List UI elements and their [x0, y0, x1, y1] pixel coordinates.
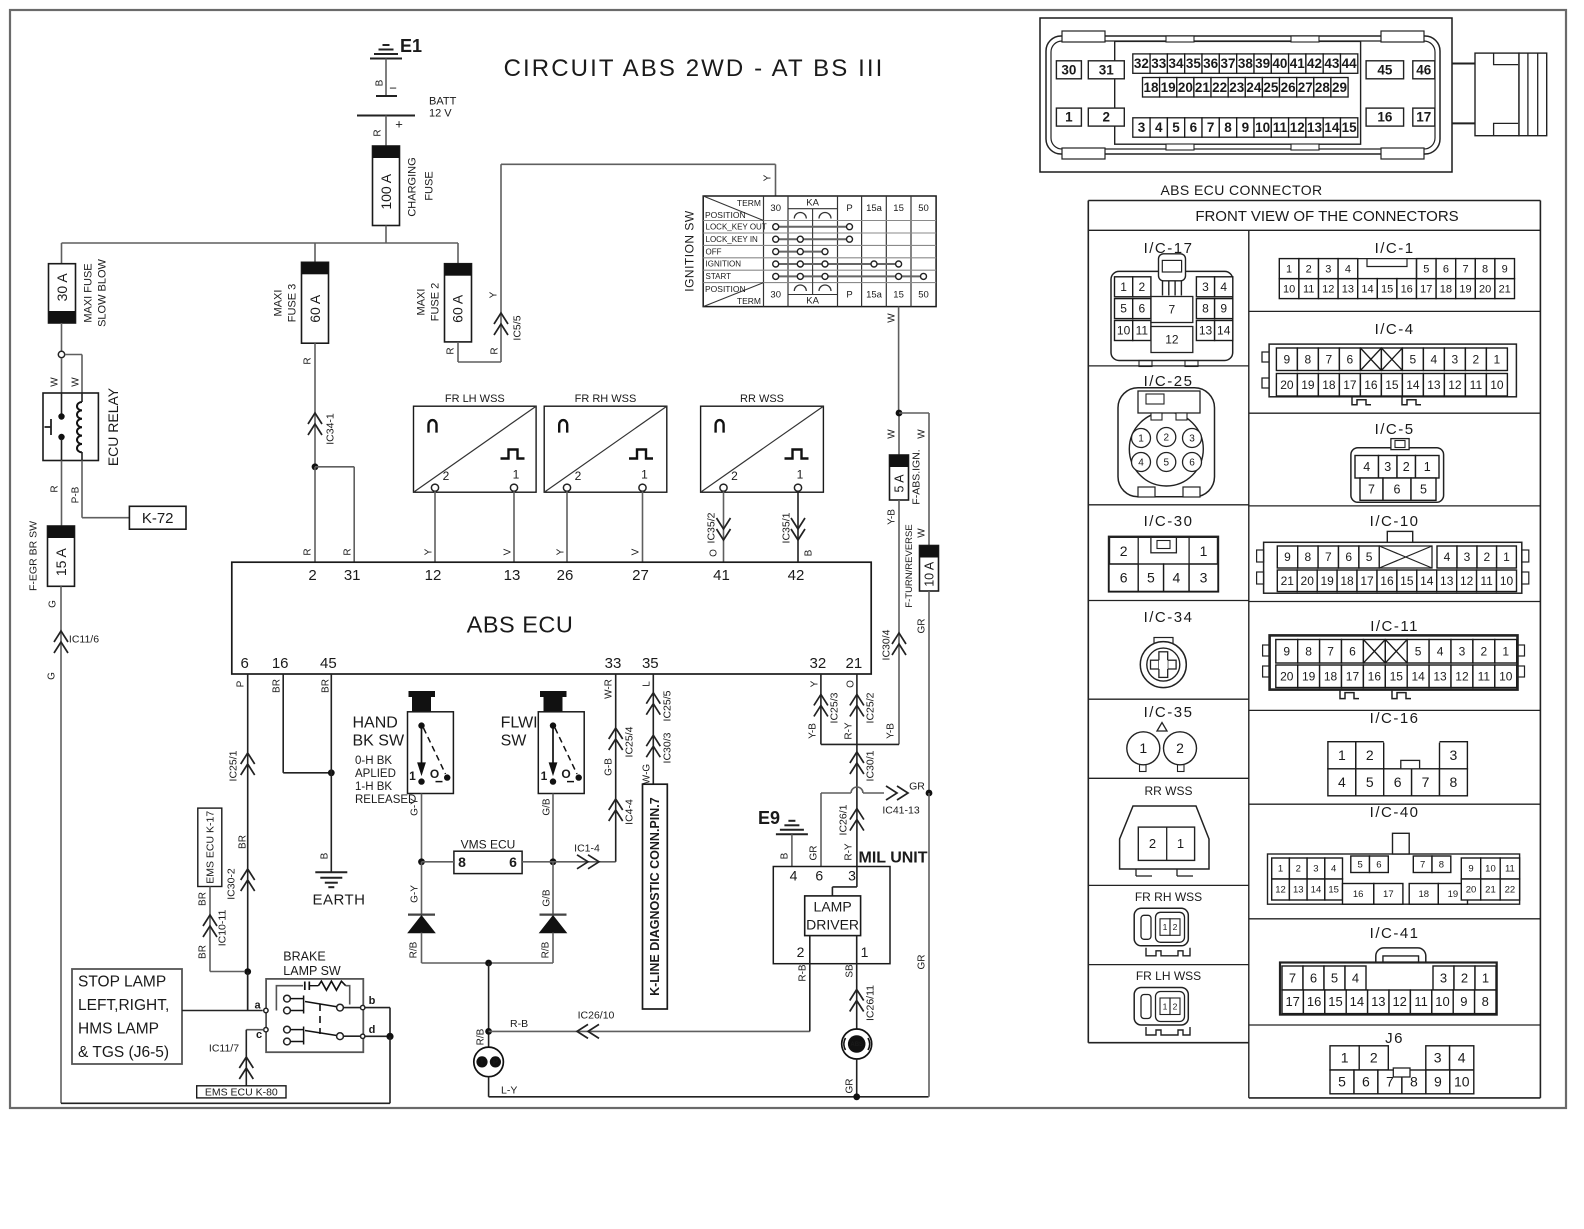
switch FLWI SW — [501, 691, 585, 794]
svg-text:L-Y: L-Y — [501, 1085, 517, 1097]
svg-text:6: 6 — [815, 867, 823, 883]
svg-text:42: 42 — [788, 567, 805, 584]
svg-text:3: 3 — [1459, 644, 1466, 658]
svg-text:25: 25 — [1263, 80, 1279, 95]
connector I/C-10 — [1257, 531, 1529, 593]
svg-text:!: ! — [481, 1058, 484, 1067]
svg-text:15 A: 15 A — [53, 547, 69, 576]
wire GR lamp to bottom node — [844, 1059, 856, 1097]
svg-text:1: 1 — [797, 468, 804, 482]
svg-text:18: 18 — [1440, 283, 1452, 295]
svg-text:30: 30 — [770, 290, 781, 301]
connector arrow IC11/7 — [209, 1043, 253, 1079]
svg-text:W: W — [916, 429, 927, 439]
svg-text:R: R — [372, 129, 383, 136]
svg-text:19: 19 — [1448, 889, 1459, 900]
svg-text:20: 20 — [1301, 574, 1315, 588]
fuse MAXI FUSE SLOW BLOW 30 A — [49, 258, 109, 326]
svg-text:17: 17 — [1343, 378, 1357, 392]
connector I/C-40 — [1268, 833, 1520, 904]
svg-text:P: P — [846, 203, 852, 214]
svg-text:GR: GR — [844, 1079, 855, 1094]
connector arrow IC25/4 — [609, 726, 636, 757]
svg-text:F-TURN/REVERSE: F-TURN/REVERSE — [904, 524, 915, 607]
svg-text:R: R — [302, 548, 313, 555]
table FRONT VIEW OF THE CONNECTORS frame — [1088, 201, 1540, 1098]
svg-text:12: 12 — [1460, 574, 1474, 588]
svg-text:8: 8 — [1450, 774, 1458, 790]
wire BR from EMS ECU K-17 to node — [197, 887, 244, 972]
node lamp top — [485, 960, 492, 967]
svg-text:2: 2 — [1461, 970, 1468, 985]
bus wire from 30A fuse to MAXI FUSE 2 — [62, 243, 459, 264]
svg-text:1: 1 — [1120, 280, 1127, 294]
svg-text:21: 21 — [846, 655, 863, 672]
svg-text:1: 1 — [1163, 922, 1168, 932]
node VMS left — [418, 858, 425, 865]
svg-text:16: 16 — [1380, 574, 1394, 588]
svg-text:30: 30 — [770, 203, 781, 214]
svg-text:W: W — [886, 313, 897, 323]
svg-text:2: 2 — [1120, 543, 1128, 559]
svg-text:8: 8 — [1305, 352, 1312, 366]
svg-text:21: 21 — [1281, 574, 1295, 588]
svg-text:R/B: R/B — [408, 941, 419, 958]
svg-text:V: V — [630, 548, 641, 555]
svg-text:& TGS (J6-5): & TGS (J6-5) — [78, 1044, 169, 1061]
svg-text:5 A: 5 A — [892, 474, 906, 493]
svg-text:R: R — [342, 548, 353, 555]
svg-text:1: 1 — [641, 468, 648, 482]
svg-text:DRIVER: DRIVER — [806, 916, 859, 932]
svg-text:45: 45 — [1377, 62, 1393, 77]
svg-text:9: 9 — [1242, 120, 1250, 135]
connector arrow IC30/4 — [881, 629, 906, 660]
svg-text:FR RH WSS: FR RH WSS — [1135, 890, 1202, 904]
svg-text:32: 32 — [810, 655, 827, 672]
svg-text:+: + — [395, 116, 403, 131]
svg-text:IC25/1: IC25/1 — [228, 750, 240, 781]
wire W branch to relay coil — [65, 355, 82, 394]
wire W ignition 15 terminal down — [886, 307, 898, 413]
wire G/B flwi sw to VMS node — [541, 794, 553, 862]
svg-text:18: 18 — [1324, 669, 1338, 683]
svg-text:RR WSS: RR WSS — [1145, 784, 1193, 798]
svg-text:10: 10 — [1283, 283, 1295, 295]
wire O RR pin2 to ECU pin 41 — [708, 491, 723, 562]
svg-text:POSITION: POSITION — [705, 210, 746, 220]
connector FR LH WSS front view — [1134, 988, 1190, 1036]
wire B E9 to MIL pin 4 — [779, 834, 792, 866]
wire V FR RH pin1 to ECU pin 27 — [630, 491, 642, 562]
svg-text:23: 23 — [1229, 80, 1245, 95]
wire VMS node to box pin 8 — [422, 861, 454, 863]
svg-text:W: W — [49, 377, 60, 387]
svg-text:TERM: TERM — [737, 198, 761, 208]
switch BRAKE LAMP SW — [266, 949, 363, 1052]
svg-text:11: 11 — [1414, 994, 1428, 1009]
svg-text:EMS ECU K-17: EMS ECU K-17 — [204, 811, 216, 884]
box MIL UNIT — [773, 849, 927, 963]
box LAMP DRIVER — [805, 896, 861, 936]
svg-text:6: 6 — [1347, 352, 1354, 366]
ABS ECU connector pin row 3-15 — [1133, 118, 1358, 137]
svg-text:2: 2 — [1173, 922, 1178, 932]
svg-text:K-72: K-72 — [142, 510, 174, 527]
connector I/C-30 — [1109, 537, 1218, 592]
wire R-B lamp driver pin2 down — [797, 936, 809, 1032]
svg-text:IC35/2: IC35/2 — [706, 512, 718, 543]
svg-text:0-H BK: 0-H BK — [355, 755, 392, 767]
svg-text:12: 12 — [425, 567, 442, 584]
svg-text:18: 18 — [1322, 378, 1336, 392]
svg-text:18: 18 — [1340, 574, 1354, 588]
svg-text:−: − — [389, 80, 397, 95]
wire B RR pin1 to ECU pin 42 — [798, 491, 814, 562]
svg-text:1: 1 — [1177, 836, 1184, 851]
svg-text:26: 26 — [557, 567, 574, 584]
wire labels pin 33 chain W-R G-B — [603, 679, 614, 776]
svg-text:22: 22 — [1212, 80, 1227, 95]
sensor RR WSS — [701, 393, 824, 492]
svg-text:I/C-16: I/C-16 — [1370, 710, 1420, 727]
ABS ECU connector pin row 32-44 — [1133, 54, 1358, 73]
svg-text:OFF: OFF — [706, 247, 722, 256]
svg-text:E9: E9 — [758, 808, 780, 828]
svg-text:IC25/3: IC25/3 — [829, 692, 841, 723]
box STOP LAMP note — [72, 969, 182, 1064]
svg-text:Y: Y — [809, 680, 820, 687]
svg-text:5: 5 — [1331, 970, 1338, 985]
svg-text:1: 1 — [1424, 460, 1431, 474]
connector I/C-17 — [1111, 254, 1233, 367]
svg-text:18: 18 — [1144, 80, 1160, 95]
svg-text:G-Y: G-Y — [409, 885, 420, 903]
svg-text:11: 11 — [1505, 864, 1515, 875]
svg-text:EARTH: EARTH — [312, 892, 365, 909]
svg-text:2: 2 — [1138, 280, 1145, 294]
svg-text:9: 9 — [1220, 302, 1227, 316]
svg-text:3: 3 — [1202, 280, 1209, 294]
wire stop lamp to terminal a — [182, 1010, 263, 1012]
svg-text:11: 11 — [1478, 669, 1491, 683]
svg-text:SLOW BLOW: SLOW BLOW — [97, 258, 109, 326]
svg-text:12: 12 — [1392, 994, 1406, 1009]
svg-text:G: G — [46, 672, 57, 680]
svg-text:17: 17 — [1346, 669, 1360, 683]
bottom rail wire to G line — [61, 1102, 390, 1104]
table IGNITION SW — [683, 196, 937, 307]
svg-text:6: 6 — [241, 655, 249, 672]
wire G-Y VMS node down to diode — [409, 862, 421, 914]
svg-text:2: 2 — [1173, 1001, 1178, 1011]
svg-text:HMS LAMP: HMS LAMP — [78, 1020, 159, 1037]
svg-text:FR LH WSS: FR LH WSS — [1136, 969, 1201, 983]
svg-text:36: 36 — [1203, 56, 1219, 71]
wire R-B horizontal to MIL pin 2 — [489, 1018, 810, 1031]
connector arrow IC1-4 — [574, 843, 600, 869]
svg-text:8: 8 — [1439, 859, 1444, 870]
svg-text:5: 5 — [1338, 1074, 1346, 1090]
svg-text:6: 6 — [1394, 774, 1402, 790]
svg-text:O: O — [561, 767, 570, 781]
svg-text:8: 8 — [1305, 550, 1312, 564]
svg-text:12: 12 — [1455, 669, 1469, 683]
connector arrow IC26/11 — [850, 985, 877, 1021]
svg-text:W: W — [886, 429, 897, 439]
svg-text:14: 14 — [1361, 283, 1373, 295]
svg-text:6: 6 — [1138, 302, 1145, 316]
svg-text:2: 2 — [797, 944, 805, 960]
wire Y pin 32 down — [807, 674, 821, 744]
svg-text:MIL UNIT: MIL UNIT — [858, 849, 927, 866]
svg-text:16: 16 — [1307, 994, 1321, 1009]
node GR wire junction — [926, 790, 933, 797]
svg-text:I/C-5: I/C-5 — [1375, 421, 1415, 438]
svg-text:BR: BR — [271, 679, 282, 693]
svg-text:LAMP: LAMP — [814, 898, 852, 914]
svg-text:IC30-2: IC30-2 — [226, 868, 238, 900]
svg-text:KA: KA — [806, 296, 819, 307]
svg-text:4: 4 — [1437, 644, 1444, 658]
svg-text:15: 15 — [893, 203, 904, 214]
connector I/C-4 — [1262, 344, 1516, 405]
connector arrow IC30-2 — [226, 868, 255, 900]
svg-text:IGNITION SW: IGNITION SW — [683, 210, 697, 292]
svg-text:28: 28 — [1315, 80, 1331, 95]
sensor FR LH WSS — [414, 393, 537, 492]
svg-text:I/C-11: I/C-11 — [1370, 618, 1419, 635]
ABS ECU connector mating plug — [1452, 53, 1547, 136]
svg-text:14: 14 — [1411, 669, 1425, 683]
svg-text:BK SW: BK SW — [353, 732, 405, 749]
svg-text:10 A: 10 A — [922, 561, 936, 587]
fuse F-ABS.IGN. 5 A — [890, 449, 923, 504]
svg-text:2: 2 — [1483, 550, 1490, 564]
svg-text:18: 18 — [1418, 889, 1429, 900]
svg-text:BR: BR — [237, 835, 248, 849]
svg-text:ECU RELAY: ECU RELAY — [105, 387, 121, 466]
svg-text:G: G — [47, 600, 58, 608]
connector arrow IC4-4 — [609, 799, 636, 825]
svg-text:8: 8 — [1482, 994, 1489, 1009]
svg-text:R: R — [445, 347, 456, 354]
svg-text:15: 15 — [1390, 669, 1404, 683]
svg-text:8: 8 — [1482, 263, 1488, 275]
svg-text:5: 5 — [1420, 482, 1427, 496]
svg-text:29: 29 — [1332, 80, 1347, 95]
box K-72 — [129, 506, 186, 529]
svg-text:14: 14 — [1406, 378, 1420, 392]
svg-text:11: 11 — [1273, 120, 1288, 135]
svg-text:K-LINE DIAGNOSTIC CONN.PIN.7: K-LINE DIAGNOSTIC CONN.PIN.7 — [648, 797, 662, 996]
svg-text:W: W — [916, 528, 927, 538]
wire pin6 joins a-line — [247, 972, 249, 1011]
svg-text:12 V: 12 V — [429, 108, 452, 120]
svg-text:B: B — [779, 852, 790, 859]
svg-text:P: P — [846, 290, 852, 301]
svg-text:R-B: R-B — [797, 964, 808, 982]
node R-B junction — [485, 1028, 492, 1035]
svg-text:2: 2 — [1403, 460, 1410, 474]
wire 30A fuse to node — [61, 323, 63, 351]
svg-text:FUSE 2: FUSE 2 — [430, 283, 442, 322]
svg-text:7: 7 — [1289, 970, 1296, 985]
svg-text:21: 21 — [1499, 283, 1511, 295]
ground E1 — [370, 36, 422, 58]
svg-text:B: B — [374, 79, 385, 86]
svg-text:4: 4 — [1155, 120, 1163, 135]
svg-text:SW: SW — [501, 732, 528, 749]
connector arrow IC41-13 into GR node — [882, 781, 925, 817]
svg-text:G/B: G/B — [541, 889, 552, 907]
svg-text:EMS ECU K-80: EMS ECU K-80 — [205, 1086, 278, 1098]
svg-text:FRONT VIEW OF THE CONNECTORS: FRONT VIEW OF THE CONNECTORS — [1195, 208, 1458, 225]
svg-text:30 A: 30 A — [54, 273, 70, 302]
svg-text:6: 6 — [1443, 263, 1449, 275]
wire W to 5A fuse node — [886, 410, 902, 455]
wire L-Y lamp bottom line — [489, 1077, 929, 1097]
svg-text:100 A: 100 A — [378, 173, 394, 209]
wire G/B VMS right node to diode — [541, 862, 553, 914]
svg-text:IC1-4: IC1-4 — [574, 843, 600, 855]
svg-text:8: 8 — [1305, 644, 1312, 658]
svg-text:5: 5 — [1120, 302, 1127, 316]
svg-text:13: 13 — [1342, 283, 1354, 295]
wire MIL pin 3 elbow to lamp driver — [832, 867, 857, 896]
svg-text:5: 5 — [1410, 352, 1417, 366]
wire G below 15A fuse — [46, 586, 61, 1103]
connector I/C-41 — [1280, 948, 1497, 1015]
svg-text:17: 17 — [1360, 574, 1374, 588]
svg-text:11: 11 — [1480, 574, 1493, 588]
svg-text:20: 20 — [1479, 283, 1491, 295]
box EMS ECU K-17 — [198, 808, 222, 886]
wire V FR LH pin1 to ECU pin 13 — [502, 491, 514, 562]
svg-text:CIRCUIT ABS 2WD - AT BS III: CIRCUIT ABS 2WD - AT BS III — [504, 55, 885, 82]
svg-text:22: 22 — [1505, 885, 1516, 896]
svg-text:7: 7 — [1207, 120, 1215, 135]
svg-text:10: 10 — [1490, 378, 1504, 392]
box EMS ECU K-80 — [197, 1086, 286, 1099]
wire W branch to 10A fuse — [899, 413, 929, 546]
svg-text:10: 10 — [1255, 120, 1270, 135]
svg-text:J6: J6 — [1385, 1030, 1404, 1047]
diode left — [408, 915, 435, 933]
svg-text:41: 41 — [1290, 56, 1306, 71]
svg-text:35: 35 — [642, 655, 659, 672]
svg-text:9: 9 — [1434, 1074, 1442, 1090]
svg-text:E1: E1 — [400, 36, 422, 56]
svg-text:4: 4 — [1352, 970, 1359, 985]
svg-text:4: 4 — [1172, 569, 1180, 585]
svg-text:2: 2 — [1370, 1050, 1378, 1066]
svg-text:LOCK_KEY IN: LOCK_KEY IN — [706, 235, 759, 244]
svg-text:15: 15 — [1328, 885, 1339, 896]
svg-text:2: 2 — [1149, 836, 1156, 851]
connector arrow IC25/5 — [646, 690, 673, 721]
svg-text:BR: BR — [320, 679, 331, 693]
svg-text:Y-B: Y-B — [807, 723, 818, 739]
svg-text:2: 2 — [1473, 352, 1480, 366]
svg-text:5: 5 — [1366, 774, 1374, 790]
svg-text:3: 3 — [1464, 550, 1471, 564]
connector RR WSS front view — [1120, 806, 1209, 876]
svg-text:APLIED: APLIED — [355, 768, 396, 780]
svg-text:IC10-11: IC10-11 — [217, 910, 229, 947]
svg-text:LOCK_KEY OUT: LOCK_KEY OUT — [706, 222, 767, 231]
svg-text:10: 10 — [1117, 324, 1131, 338]
svg-text:3: 3 — [1434, 1050, 1442, 1066]
svg-text:Y-B: Y-B — [886, 509, 897, 525]
box VMS ECU — [454, 838, 522, 874]
svg-text:R/B: R/B — [475, 1028, 486, 1045]
svg-text:R-Y: R-Y — [843, 843, 854, 861]
ground E9 — [758, 808, 808, 834]
svg-text:15: 15 — [1328, 994, 1342, 1009]
diode right — [540, 915, 567, 933]
wire O pin 21 down — [843, 674, 857, 744]
svg-text:2: 2 — [1481, 644, 1488, 658]
wire GR elbow down to MIL pin 6 — [808, 793, 821, 867]
battery BATT 12 V — [357, 80, 457, 131]
terminal c — [256, 1028, 268, 1042]
svg-text:15: 15 — [1342, 120, 1358, 135]
connector I/C-1 — [1279, 259, 1514, 299]
svg-text:12: 12 — [1165, 333, 1179, 347]
svg-text:4: 4 — [1331, 864, 1336, 875]
svg-text:P-B: P-B — [70, 486, 81, 503]
svg-text:20: 20 — [1466, 885, 1477, 896]
svg-text:RELEASED: RELEASED — [355, 794, 416, 806]
svg-text:F-ABS.IGN.: F-ABS.IGN. — [911, 449, 923, 504]
svg-text:13: 13 — [1293, 885, 1304, 896]
wire SB lamp driver pin1 down to MIL lamp — [844, 936, 856, 1029]
svg-text:R: R — [489, 347, 500, 354]
svg-text:12: 12 — [1275, 885, 1286, 896]
connector arrow IC35/1 — [781, 512, 805, 543]
svg-text:I/C-30: I/C-30 — [1144, 513, 1194, 530]
svg-text:32: 32 — [1134, 56, 1149, 71]
svg-text:24: 24 — [1246, 80, 1262, 95]
svg-text:10: 10 — [1500, 574, 1514, 588]
wire GR down right side — [916, 793, 929, 1097]
ABS ECU top pin labels — [308, 567, 804, 584]
svg-text:START: START — [706, 272, 732, 281]
svg-text:20: 20 — [1280, 378, 1294, 392]
svg-text:16: 16 — [1353, 889, 1364, 900]
svg-text:Y: Y — [762, 174, 773, 181]
label ABS ECU CONNECTOR — [1160, 182, 1322, 198]
svg-text:3: 3 — [1325, 263, 1331, 275]
svg-text:33: 33 — [605, 655, 622, 672]
svg-text:BRAKE: BRAKE — [283, 949, 325, 963]
svg-text:40: 40 — [1272, 56, 1287, 71]
svg-text:4: 4 — [1220, 280, 1227, 294]
svg-text:GR: GR — [909, 781, 925, 793]
svg-text:19: 19 — [1301, 378, 1315, 392]
svg-text:13: 13 — [1199, 324, 1213, 338]
svg-text:1: 1 — [409, 769, 416, 783]
terminal a — [254, 1000, 268, 1013]
svg-text:46: 46 — [1416, 62, 1432, 77]
svg-text:6: 6 — [1310, 970, 1317, 985]
wire label R-Y above MIL pin 3 — [843, 843, 854, 861]
svg-text:20: 20 — [1178, 80, 1193, 95]
connector arrow IC25/1 — [228, 750, 255, 781]
svg-text:R-Y: R-Y — [843, 722, 854, 740]
svg-text:3: 3 — [1452, 352, 1459, 366]
